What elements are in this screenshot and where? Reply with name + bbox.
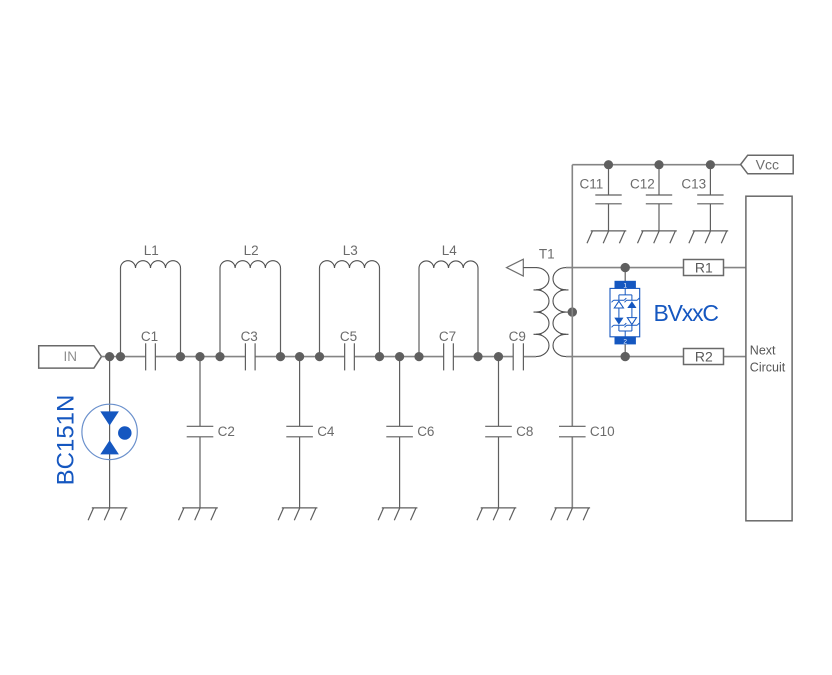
node centre tap bbox=[568, 307, 577, 316]
wire: BVxxC bottom lead bbox=[624, 344, 626, 356]
capacitor C7 (series) bbox=[444, 343, 454, 370]
ground (C2 return) bbox=[179, 508, 218, 520]
wire: C8 upper lead bbox=[498, 357, 500, 427]
svg-text:C5: C5 bbox=[340, 329, 357, 344]
wire: L1 right leg bbox=[180, 268, 182, 357]
svg-text:C4: C4 bbox=[317, 424, 335, 439]
arrow marker into T1 primary bbox=[507, 259, 524, 276]
capacitor C2 (shunt) bbox=[187, 426, 214, 437]
transformer winding cusp ticks bbox=[534, 290, 569, 334]
ground (BC151N) bbox=[88, 508, 127, 520]
IN port tag bbox=[39, 346, 102, 368]
node C8/C9 tap bbox=[494, 352, 503, 361]
svg-text:Vcc: Vcc bbox=[756, 157, 779, 173]
capacitor C1 (series) bbox=[146, 343, 156, 370]
svg-text:C6: C6 bbox=[417, 424, 434, 439]
svg-text:C3: C3 bbox=[241, 329, 258, 344]
wire: secondary top to R1 bbox=[566, 267, 684, 269]
node L4 right bbox=[473, 352, 482, 361]
svg-text:2: 2 bbox=[623, 338, 627, 345]
wire: BVxxC top lead bbox=[624, 268, 626, 281]
surge arrester BC151N (GDT) bbox=[82, 404, 137, 459]
capacitor C4 (shunt) bbox=[286, 426, 313, 437]
node L4 left bbox=[414, 352, 423, 361]
svg-text:C7: C7 bbox=[439, 329, 456, 344]
ground (C8 return) bbox=[477, 508, 516, 520]
wire: R1 to next circuit bbox=[724, 267, 746, 269]
svg-text:L2: L2 bbox=[244, 243, 259, 258]
Vcc port tag bbox=[741, 155, 794, 174]
wire: C11 upper lead bbox=[608, 165, 610, 195]
capacitor C13 (decoupling) bbox=[697, 195, 723, 204]
wire: C12 lower lead bbox=[658, 204, 660, 231]
svg-text:C2: C2 bbox=[218, 424, 235, 439]
wire: C6 lower lead bbox=[399, 437, 401, 508]
svg-text:BC151N: BC151N bbox=[53, 395, 80, 486]
node L1 right bbox=[176, 352, 185, 361]
svg-text:C10: C10 bbox=[590, 424, 615, 439]
svg-text:Circuit: Circuit bbox=[750, 361, 786, 375]
node C12 tap bbox=[654, 160, 663, 169]
svg-text:C9: C9 bbox=[509, 329, 526, 344]
wire: L1 left leg bbox=[120, 268, 122, 357]
svg-text:IN: IN bbox=[64, 349, 78, 364]
transformer T1 primary winding bbox=[536, 268, 549, 357]
next circuit block bbox=[746, 196, 792, 521]
svg-text:C1: C1 bbox=[141, 329, 158, 344]
inductor L3 bbox=[320, 261, 380, 268]
svg-text:C12: C12 bbox=[630, 176, 655, 191]
wire: C11 lower lead bbox=[608, 204, 610, 231]
inductor L1 bbox=[121, 261, 181, 268]
svg-text:T1: T1 bbox=[539, 246, 555, 261]
node C6 tap bbox=[395, 352, 404, 361]
node BVxxC bottom bbox=[621, 352, 630, 361]
wire: C8 lower lead bbox=[498, 437, 500, 508]
inductor L4 bbox=[419, 261, 478, 268]
wire: L3 left leg bbox=[319, 268, 321, 357]
wire: secondary centre tap stub bbox=[566, 311, 572, 313]
inductor L2 bbox=[220, 261, 280, 268]
TVS thyristor array BVxxC bbox=[610, 281, 640, 346]
ground (C4 return) bbox=[278, 508, 317, 520]
ground (C10) bbox=[551, 508, 590, 520]
node L3 left bbox=[315, 352, 324, 361]
svg-text:L4: L4 bbox=[442, 243, 458, 258]
node C11 tap bbox=[604, 160, 613, 169]
wire: main bus IN to C1 bbox=[102, 356, 146, 358]
wire: C13 upper lead bbox=[709, 165, 711, 195]
capacitor C8 (shunt) bbox=[485, 426, 512, 437]
capacitor C6 (shunt) bbox=[386, 426, 413, 437]
wire: main bus C3 to C5 bbox=[255, 356, 345, 358]
node C4 tap bbox=[295, 352, 304, 361]
wire: C2 upper lead bbox=[199, 357, 201, 427]
svg-text:C13: C13 bbox=[681, 176, 706, 191]
svg-text:Next: Next bbox=[750, 344, 776, 358]
wire: L2 right leg bbox=[280, 268, 282, 357]
resistor R2 bbox=[684, 348, 724, 364]
node L2 left bbox=[215, 352, 224, 361]
wire: secondary bottom to R2 bbox=[566, 356, 684, 358]
capacitor C11 (decoupling) bbox=[595, 195, 621, 204]
node C13 tap bbox=[706, 160, 715, 169]
capacitor C9 (series) bbox=[513, 343, 523, 370]
capacitor C10 (shunt on centre tap) bbox=[559, 426, 586, 437]
svg-text:BVxxC: BVxxC bbox=[654, 300, 719, 326]
node C2 tap bbox=[195, 352, 204, 361]
wire: L4 right leg bbox=[477, 268, 479, 357]
wire: arrow to T1 primary top bbox=[523, 267, 536, 269]
wire: C9 to T1 primary bottom bbox=[523, 356, 536, 358]
wire: L2 left leg bbox=[219, 268, 221, 357]
wire: C4 upper lead bbox=[299, 357, 301, 427]
node BVxxC top bbox=[621, 263, 630, 272]
svg-text:L1: L1 bbox=[144, 243, 159, 258]
node L1 left bbox=[116, 352, 125, 361]
svg-text:R2: R2 bbox=[695, 348, 713, 364]
capacitor C3 (series) bbox=[245, 343, 255, 370]
node L3 right bbox=[375, 352, 384, 361]
wire: C4 lower lead bbox=[299, 437, 301, 508]
capacitor C12 (decoupling) bbox=[646, 195, 672, 204]
svg-text:C11: C11 bbox=[580, 176, 604, 191]
wire: main bus C5 to C7 bbox=[354, 356, 443, 358]
wire: main bus C7 to C9 bbox=[453, 356, 513, 358]
svg-text:L3: L3 bbox=[343, 243, 358, 258]
wire: Vcc horizontal rail bbox=[572, 164, 740, 166]
wire: C12 upper lead bbox=[658, 165, 660, 195]
ground (C11) bbox=[587, 231, 626, 243]
wire: C6 upper lead bbox=[399, 357, 401, 427]
resistor R1 bbox=[684, 259, 724, 275]
transformer T1 secondary winding bbox=[553, 268, 566, 357]
wire: R2 to next circuit bbox=[724, 356, 746, 358]
ground (C12) bbox=[638, 231, 677, 243]
ground (C13) bbox=[689, 231, 728, 243]
node junction IN / arrester bbox=[105, 352, 114, 361]
svg-text:C8: C8 bbox=[516, 424, 533, 439]
wire: main bus C1 to C3 bbox=[155, 356, 245, 358]
wire: C13 lower lead bbox=[709, 204, 711, 231]
wire: arrester lead bbox=[109, 357, 111, 508]
ground (C6 return) bbox=[378, 508, 417, 520]
node L2 right bbox=[276, 352, 285, 361]
wire: C2 lower lead bbox=[199, 437, 201, 508]
svg-text:R1: R1 bbox=[695, 259, 713, 275]
wire: Vcc feed vertical (centre tap / C10) bbox=[571, 165, 573, 508]
capacitor C5 (series) bbox=[345, 343, 355, 370]
wire: L4 left leg bbox=[418, 268, 420, 357]
wire: L3 right leg bbox=[379, 268, 381, 357]
